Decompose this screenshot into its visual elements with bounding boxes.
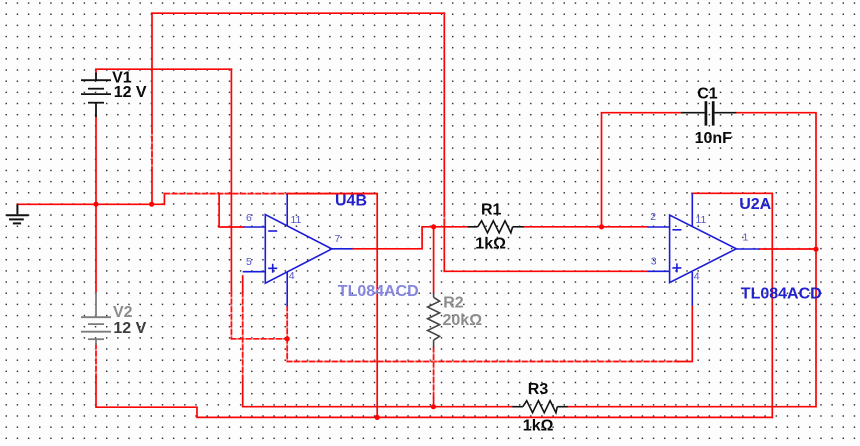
- wire R2 bottom tail to R3 line: [433, 398, 435, 407]
- svg-text:12 V: 12 V: [114, 84, 147, 101]
- svg-text:4: 4: [694, 270, 700, 282]
- wire V1 column down x=231: [230, 69, 232, 292]
- svg-text:10nF: 10nF: [695, 130, 733, 147]
- wire V1 top: [96, 69, 231, 74]
- junction dot U4B pin4 node: [285, 336, 290, 341]
- svg-text:U2A: U2A: [739, 196, 771, 213]
- svg-text:1kΩ: 1kΩ: [475, 236, 506, 253]
- wire down to U4B pin 6: [219, 194, 243, 227]
- dashed wire R2 bottom: [433, 348, 435, 399]
- junction dot ground column: [149, 202, 154, 207]
- resistor R1: [468, 221, 524, 233]
- svg-text:11: 11: [291, 214, 302, 226]
- dashed wire U4B pin4 red segment: [286, 306, 288, 339]
- wire V1 bottom to ground node: [95, 116, 97, 204]
- op-amp U4B: [243, 194, 353, 306]
- wire R1 node to resistor and on to U2A pin2: [434, 226, 648, 228]
- ground symbol: [6, 204, 28, 223]
- wire output node down to R3 line: [568, 249, 816, 407]
- wire pin5 short solid: [242, 276, 244, 292]
- dashed overlay on x=444 column: [443, 212, 445, 224]
- wire bus up right column to U2A pin11: [692, 193, 772, 417]
- wire right column down to U2A pin3: [443, 13, 445, 271]
- wire ground dashed run to U2A pin3 column: [165, 193, 377, 195]
- svg-text:TL084ACD: TL084ACD: [741, 285, 822, 302]
- wire V2 to bottom bus with jog: [96, 377, 772, 418]
- svg-text:7: 7: [335, 233, 341, 245]
- wire V2 top to ground node: [95, 204, 97, 292]
- svg-text:C1: C1: [697, 85, 718, 102]
- capacitor C1: [681, 101, 736, 125]
- wire solid tail to U2A pin4: [678, 306, 692, 362]
- wire U2A pin3 horizontal: [444, 270, 647, 272]
- svg-text:3: 3: [651, 255, 657, 267]
- svg-text:2: 2: [650, 211, 656, 223]
- junction dot ground/V1/V2: [93, 202, 98, 207]
- wire ground node up-column x=151: [151, 13, 153, 204]
- svg-text:12 V: 12 V: [113, 320, 146, 337]
- dashed wire pin5 column: [242, 292, 244, 377]
- svg-text:TL084ACD: TL084ACD: [338, 283, 419, 300]
- wire R3 left side to U4B pin5 column: [243, 377, 513, 407]
- resistor R3: [512, 401, 568, 413]
- resistor R2 (grey, vertical): [428, 293, 440, 348]
- junction dot R2/R3 node: [431, 404, 436, 409]
- svg-text:1kΩ: 1kΩ: [523, 418, 554, 435]
- svg-text:1: 1: [743, 231, 749, 243]
- svg-text:U4B: U4B: [335, 193, 367, 210]
- svg-text:R1: R1: [481, 202, 502, 219]
- svg-text:R3: R3: [528, 381, 549, 398]
- svg-text:5: 5: [246, 256, 252, 268]
- svg-text:R2: R2: [443, 294, 464, 311]
- battery V1: [81, 73, 111, 118]
- wire top bus: [152, 12, 444, 14]
- svg-text:V2: V2: [113, 304, 133, 321]
- wire U4B output jog to R1 node: [353, 227, 434, 249]
- battery V2 (grey): [81, 292, 111, 345]
- wire R1 node down to R2 top: [433, 227, 435, 293]
- dashed wire V2 bottom: [95, 344, 97, 377]
- junction dot R1 right node: [599, 224, 604, 229]
- wire C1 loop: up from R1-right node, across, down to output node: [602, 113, 817, 250]
- dashed wire pin4 node down and across to U2A pin4: [287, 339, 678, 362]
- svg-text:11: 11: [696, 214, 707, 226]
- wire ground rail horizontal: [17, 203, 163, 205]
- dashed wire x=231 lower: [230, 292, 232, 339]
- dashed overlay on x=151 column: [151, 129, 153, 168]
- junction dot bus x=377: [375, 415, 380, 420]
- svg-text:20kΩ: 20kΩ: [443, 312, 483, 329]
- junction dot U2A output node: [813, 247, 818, 252]
- wire ground step up: [163, 194, 165, 205]
- wire U2A output: [760, 248, 816, 250]
- svg-text:4: 4: [289, 270, 295, 282]
- svg-text:6: 6: [246, 212, 252, 224]
- dashed wire to U4B pin4 node: [231, 338, 287, 340]
- junction dot R1 left node: [431, 224, 436, 229]
- wire U4B pin11 across and down to bus: [287, 194, 377, 418]
- op-amp U2A: [648, 193, 760, 305]
